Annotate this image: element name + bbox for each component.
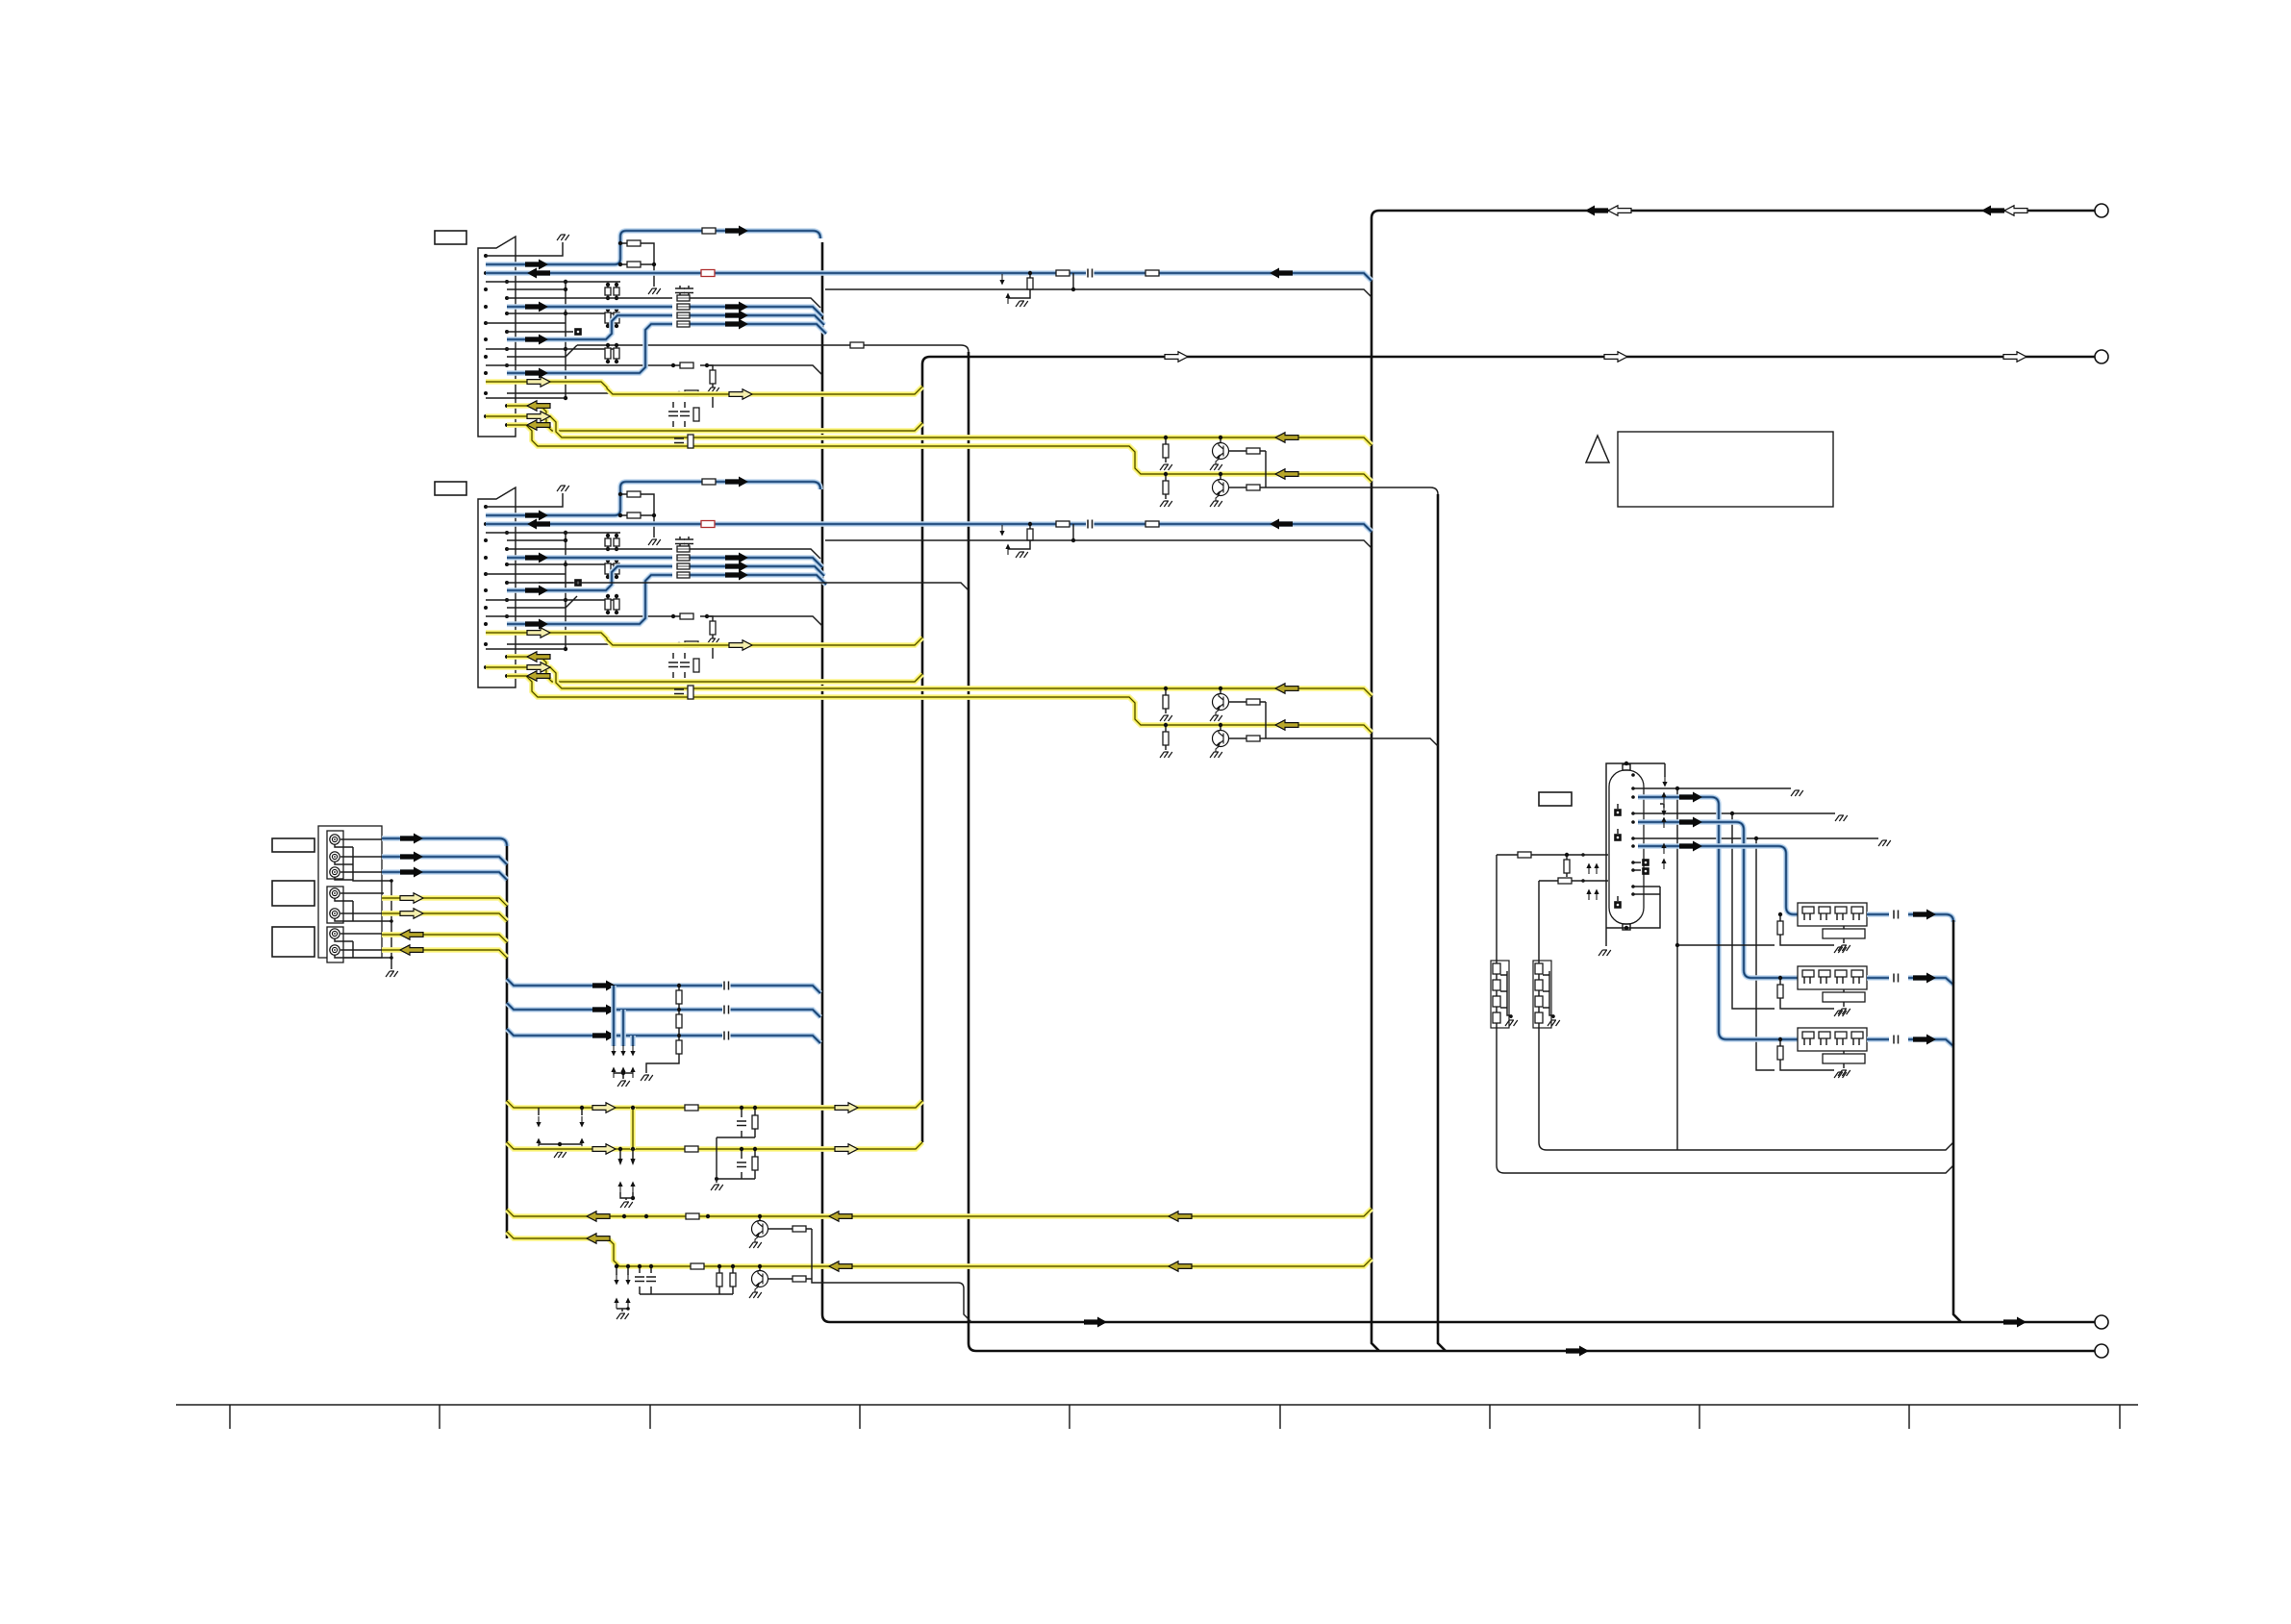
wire CN2 row310 to bus V2: [507, 549, 820, 559]
wire D-sub pin gnd row y=820: [1633, 787, 1791, 789]
cap and resistor pair under yellow sync2: [717, 1149, 755, 1179]
connector CN1 pin 16: [505, 380, 509, 384]
connector CN1 pin 17: [484, 391, 488, 395]
resistor inline on blue CN1: [702, 228, 716, 234]
terminator square on CN1 row 345: [574, 328, 582, 336]
resistor inline on CN2 row380: [680, 613, 693, 619]
arrow at CN2 pin2: [525, 511, 548, 521]
base resistor QE: [768, 1278, 812, 1280]
red inline resistor on blue input CN2: [701, 521, 715, 528]
wire yellow RCA-A1: [382, 935, 507, 942]
RCA jack A1: [330, 929, 340, 938]
ruler tick 7: [1489, 1405, 1491, 1429]
wire vertical bus V4 x=1426 with top run y=219 to terminal: [1372, 211, 2095, 1351]
inline resistor 1 on blue input CN2: [1056, 521, 1070, 527]
wire blue TMDS2 CN1 step up: [507, 324, 826, 373]
wire vertical bus V1 x=527: [506, 846, 509, 1238]
arrow blue VGA green: [1679, 817, 1702, 828]
wire yellow CEC-B CN1 long stepped to V4: [507, 425, 1372, 482]
esd up arrows left of D-sub: [1588, 867, 1590, 874]
wire yellow sync 2 y=1195: [507, 1142, 922, 1149]
resistor to ground tap on blue input CN1: [1027, 278, 1033, 289]
connector CN1 pin 7: [484, 305, 488, 309]
transistor QA CN2: [1220, 688, 1221, 694]
arrow blue VGA blue: [1679, 841, 1702, 852]
up-arrow stubs under sync2: [619, 1186, 621, 1192]
base resistor QD: [768, 1228, 812, 1230]
resistor stub on yellow B CN1: [1165, 474, 1167, 499]
arrow filter3 output: [1913, 1035, 1936, 1045]
branch resistors at CN2 riser x=645: [620, 494, 654, 537]
wire yellow DDC-A CN2 ends at V959: [486, 633, 922, 645]
connector CN1 pin 14: [505, 363, 509, 367]
connector CN2 pin 1: [484, 505, 488, 509]
wire D-sub left H/V sync row y=889: [1497, 854, 1608, 856]
wire yellow CEC-B CN2 long stepped to V4: [507, 676, 1372, 733]
connector CN2 pin 2: [505, 513, 509, 517]
arrow on line y=371 left: [1604, 352, 1627, 362]
filter FL3 shield bar: [1823, 1054, 1865, 1063]
terminal circle y=371: [2095, 350, 2108, 363]
wire blue TMDS0 CN1: [507, 307, 822, 316]
wire blue long input CN2 y=545 to bus V4: [486, 524, 1372, 532]
ground for resistor ladder: [641, 1075, 653, 1081]
resistor to ground on CN1 row380: [710, 370, 716, 384]
ruler tick 6: [1279, 1405, 1281, 1429]
resistor stub on yellow A CN1: [1165, 437, 1167, 462]
resistor to ground tap on blue input CN2: [1027, 529, 1033, 540]
capacitor cluster CN1: [673, 402, 685, 427]
arrows yellow sync 1: [592, 1103, 616, 1112]
resistor pair CN2-1: [605, 538, 611, 546]
wire yellow bottom B stepped y=1288/1317: [507, 1232, 1372, 1266]
arrow blue component 2: [592, 1005, 616, 1015]
arrow yellow RCA-A1: [400, 930, 423, 939]
wire blue filter2 output: [1867, 978, 1953, 985]
wire vertical from row2 x=1600 down through filter: [1539, 881, 1953, 1150]
arrow on blue CN1 clock: [725, 226, 748, 237]
return vertical from row820: [1676, 788, 1678, 1150]
terminal circle top-right y=219: [2095, 204, 2108, 217]
caps and resistors under yellow bottom B: [640, 1266, 733, 1294]
wire CN1 row409 with resistor: [507, 393, 713, 408]
wire yellow sync 1 y=1152: [507, 1101, 922, 1108]
note box: [1618, 432, 1833, 507]
connector CN1 pin 3: [484, 271, 488, 275]
wire vertical bus V959 sync collector with top run y=371: [922, 357, 2095, 1142]
arrow filter2 output: [1913, 973, 1936, 984]
wire black return CN2 y=562 to bus V4: [825, 540, 1372, 548]
wire blue filter1 output: [1867, 914, 1953, 922]
wire blue TMDS clock CN2 to bus V2: [486, 482, 820, 515]
wire CN2 row380 to bus V2: [486, 616, 822, 626]
connector CN1 pin 8: [505, 312, 509, 315]
arrow yellow DDC-B CN2: [527, 652, 550, 662]
wire blue TMDS2 CN2 step up: [507, 575, 826, 624]
blue stub drop 1: [611, 986, 617, 1046]
resistor stub on yellow B CN2: [1165, 725, 1167, 750]
filter FL3 body: [1798, 1028, 1867, 1051]
arrow left on blue input CN1: [1270, 268, 1293, 279]
filter FL1 input resistor to ground: [1780, 914, 1834, 945]
wire blue TMDS1 CN1 step up: [507, 315, 824, 339]
connector CN1 pin 10: [505, 330, 509, 334]
wire CN1 row310 to bus V2: [507, 298, 820, 308]
connector CN1 pin 6: [505, 296, 509, 300]
resistor to ground on CN2 row380: [710, 621, 716, 635]
bead on CN1 row310: [677, 295, 690, 301]
D-sub outer frame: [1606, 763, 1665, 946]
connector CN1 pin 5: [484, 287, 488, 291]
wire blue VGA green y=855: [1638, 822, 1798, 978]
vertical filter FL-B outer: [1533, 961, 1551, 1028]
arrow blue component 1: [592, 981, 616, 991]
arrows yellow bottom A: [587, 1212, 610, 1221]
arrow filter1 output: [1913, 910, 1936, 920]
base bus vertical CN2: [1265, 702, 1267, 738]
transistor QD on yellow bottom A: [759, 1216, 761, 1221]
arrow on bottom line y=1375 left: [1084, 1317, 1107, 1328]
arrow on line y=371 middle: [1165, 352, 1188, 362]
wire vertical bus V3 x=1007 with bottom run y=1405: [969, 352, 2095, 1351]
base resistor QA CN2: [1228, 701, 1266, 703]
arrow left on blue input CN2: [1270, 519, 1293, 530]
bracket and ground for blue stubs: [614, 1073, 633, 1079]
RCA shield wiring group1: [335, 844, 391, 881]
return vertical from row872: [1756, 838, 1775, 1070]
arrow yellow CEC-B CN2: [527, 671, 550, 681]
arrow TMDS1 CN1: [725, 311, 748, 321]
resistor pair CN1-2: [605, 312, 611, 323]
arrow at CN2 pin3: [527, 519, 550, 530]
resistor ladder for component blues: [676, 990, 682, 1004]
yellow bridge between sync lines: [630, 1108, 636, 1149]
wire blue RCA-Pb: [382, 857, 507, 864]
arrows yellow bottom B: [587, 1234, 610, 1243]
ground at CN1 pin1: [557, 235, 569, 240]
vertical filter FL-B side rail: [1543, 971, 1553, 1018]
arrow at CN1 pin2: [525, 260, 548, 270]
connector CN1 pin 9: [484, 321, 488, 325]
ruler tick 5: [1069, 1405, 1070, 1429]
RCA label box 1: [272, 838, 315, 852]
arrow blue RCA-Pr: [400, 867, 423, 878]
resistor on y=359 feeder: [850, 342, 864, 348]
wire CN1 pin stubs: [486, 282, 620, 398]
wire blue component 3 y=1077: [507, 1029, 820, 1043]
RCA jack Pb: [330, 852, 340, 862]
arrow on bottom line y=1405: [1566, 1346, 1589, 1357]
hanging resistor on sync row: [1564, 860, 1570, 873]
inline resistor yellow bottom A: [686, 1213, 699, 1219]
stub arrows under yellow bottom B: [616, 1274, 617, 1281]
RCA ground stem: [390, 881, 392, 969]
ground for blue input tap CN1: [1016, 301, 1028, 307]
base resistor QB CN2: [1228, 737, 1266, 739]
connector CN2 pin 8: [505, 562, 509, 566]
wire blue TMDS clock CN1 to bus V2: [486, 231, 820, 264]
connector CN1 pin 15: [484, 371, 488, 375]
ruler tick 1: [229, 1405, 231, 1429]
arrow TMDS1 CN2: [725, 562, 748, 572]
RCA jack V1: [330, 888, 340, 898]
RCA jack A2: [330, 945, 340, 955]
wire vertical bus V2 x=855 with bottom run to terminal: [822, 242, 2095, 1322]
RCA group 1 sub-box: [327, 831, 343, 879]
wire yellow DDC-B CN1 ends at V959: [507, 406, 922, 431]
ruler tick 10: [2119, 1405, 2121, 1429]
wire blue long input CN1 y=284 to bus V4: [486, 273, 1372, 281]
wire CN2 row371 riser: [507, 596, 577, 608]
arrow TMDS2 CN1: [725, 319, 748, 330]
arrow yellow RCA-A2: [400, 945, 423, 955]
branch resistors at CN1 riser x=645: [620, 243, 654, 287]
vertical filter FL-B elements: [1535, 963, 1543, 974]
capacitor cluster CN2: [673, 653, 685, 678]
small esd squares on D-sub rows 897/905: [1633, 862, 1641, 870]
cap and resistor pair under yellow sync1: [717, 1108, 755, 1177]
wire CN2 pin1 to ground: [486, 493, 563, 507]
wire blue VGA blue y=880: [1638, 846, 1798, 914]
transistor QA CN1: [1220, 437, 1221, 443]
connector CN1 pin 2: [505, 262, 509, 266]
resistor stub on yellow A CN2: [1165, 688, 1167, 713]
inline capacitor blue component 2: [722, 1005, 731, 1014]
arrow yellow DDC-B CN1: [527, 401, 550, 411]
connector CN2 pin 3: [484, 522, 488, 526]
terminal circle bottom y=1405: [2095, 1344, 2108, 1358]
wire yellow DDC-B CN2 ends at V959: [507, 657, 922, 682]
arrow TMDS2 CN2: [725, 570, 748, 581]
wire D-sub pin gnd row y=872: [1633, 837, 1878, 839]
connector CN2 pin 7: [484, 556, 488, 560]
connector CN2 pin 19: [484, 665, 488, 669]
arrow on line y=371 right: [2003, 352, 2027, 362]
blue stub drop 2: [620, 1010, 626, 1046]
connector CN1 label box: [435, 231, 466, 244]
connector CN1 pin 13: [484, 355, 488, 359]
wire CN1 row371 riser: [507, 345, 577, 357]
red inline resistor on blue input CN1: [701, 270, 715, 277]
RCA ground: [386, 971, 398, 977]
wire CN2 junction column x=588: [565, 533, 566, 649]
ground rail from filter1 to return vertical: [1677, 944, 1775, 946]
wire yellow CEC-A CN2 long to V4: [486, 667, 1372, 696]
down arrow on D-sub frame right: [1664, 763, 1666, 777]
capacitor pair CN1: [680, 286, 689, 297]
D-sub label box: [1539, 792, 1572, 806]
wire bus feeder from HDMI1 row y=359 turning down at x=1007: [577, 345, 969, 352]
connector CN2 pin 14: [505, 614, 509, 618]
arrow blue RCA-Y: [400, 834, 423, 844]
inline capacitor blue component 3: [722, 1031, 731, 1040]
filter FL1 shield bar: [1823, 929, 1865, 938]
elbow down-arrow between rows: [1660, 804, 1664, 808]
wire blue component 2 y=1050: [507, 1003, 820, 1017]
wire vertical output bus x=2031: [1953, 920, 1961, 1322]
wire D-sub rows to frame: [1633, 887, 1660, 894]
connector CN1 pin 12: [505, 347, 509, 351]
RCA jack Pr: [330, 867, 340, 877]
ground for blue input tap CN2: [1016, 552, 1028, 558]
wire vertical bus V5 x=1495 base-signal bus: [1438, 494, 1446, 1351]
RCA jack Y: [330, 835, 340, 844]
arrow pair on top line y=219 right group: [1981, 206, 2004, 216]
shell pin squares inside D-sub: [1617, 804, 1619, 901]
ground under yellow bottom B: [617, 1313, 629, 1319]
connector CN2 pin 13: [484, 606, 488, 610]
inline resistor yellow bottom B: [691, 1263, 704, 1269]
terminal circle bottom y=1375: [2095, 1315, 2108, 1329]
RCA shield wiring group2: [335, 898, 391, 921]
D-sub pill body: [1609, 770, 1644, 924]
arrow blue component 3: [592, 1031, 616, 1041]
arrow yellow RCA-V1: [400, 893, 423, 903]
connector CN2 pin 4: [505, 531, 509, 535]
wire base line CN2 to V5: [1266, 738, 1438, 746]
arrow blue VGA red: [1679, 792, 1702, 803]
RCA label box 3: [272, 927, 315, 957]
wire yellow RCA-V2: [382, 913, 507, 921]
connector CN2 label box: [435, 482, 466, 495]
resistor pair CN2-2: [605, 563, 611, 574]
RCA shield wiring group3: [335, 938, 391, 958]
connector CN1 pin 19: [484, 414, 488, 418]
ground under yellow sync1: [554, 1152, 566, 1158]
wire yellow CEC-A CN1 long to V4: [486, 416, 1372, 445]
transistor QE on yellow bottom B: [759, 1266, 761, 1271]
resistor inline on blue CN2: [702, 479, 716, 485]
wire blue VGA red y=829: [1638, 797, 1798, 1039]
ground below CN1 riser branch: [648, 288, 661, 294]
connector CN1 pin 1: [484, 254, 488, 258]
filter FL2 elements: [1802, 970, 1814, 977]
wire blue filter3 output: [1867, 1039, 1953, 1046]
arrow at CN1 pin3: [527, 268, 550, 279]
connector CN2 pin 12: [505, 598, 509, 602]
arrow yellow DDC-A CN1: [527, 377, 550, 387]
base network vertical and run to bottom bus: [812, 1229, 971, 1322]
arrow blue RCA-Pb: [400, 852, 423, 862]
arrow TMDS0 CN2: [725, 553, 748, 563]
connector CN2 body outline: [478, 487, 516, 687]
connector CN1 pin 11: [484, 337, 488, 341]
vertical filter FL-B ground: [1548, 1020, 1560, 1026]
resistor inline on CN1 row380: [680, 362, 693, 368]
ruler baseline: [176, 1404, 2138, 1406]
RCA jack V2: [330, 909, 340, 918]
arrow yellow DDC-A CN2: [527, 628, 550, 637]
up-arrow symbols at D-sub column: [1663, 796, 1665, 803]
inline resistor yellow sync2: [685, 1146, 698, 1152]
inline capacitor on blue input CN1: [1086, 268, 1095, 278]
vertical filter FL-A outer: [1491, 961, 1509, 1028]
inline resistor 2 on blue input CN2: [1145, 521, 1159, 527]
vertical filter FL-A ground: [1505, 1020, 1518, 1026]
filter FL2 shield bar: [1823, 992, 1865, 1002]
wire black return CN1 y=301 to bus V4: [825, 289, 1372, 297]
filter FL3 input resistor to ground: [1780, 1039, 1834, 1070]
resistor pair CN1-1: [605, 287, 611, 295]
ruler tick 9: [1908, 1405, 1910, 1429]
base resistor QB CN1: [1228, 487, 1266, 488]
base bus vertical CN1: [1265, 451, 1267, 487]
connector CN2 pin 18: [505, 655, 509, 659]
connector CN1 pin 4: [505, 280, 509, 284]
wire blue RCA-Pr: [382, 872, 507, 880]
wire vertical from sync row x=1556 down through filter: [1497, 855, 1953, 1173]
down-arrow stubs under sync2: [620, 1149, 633, 1160]
wire CN2 pin stubs: [486, 533, 620, 649]
filter FL2 input resistor to ground: [1780, 978, 1834, 1009]
connector CN2 pin 20: [505, 674, 509, 678]
return vertical from row846: [1732, 813, 1775, 1009]
RCA connector outer box: [318, 826, 382, 958]
wire yellow DDC-A CN1 ends at V959: [486, 382, 922, 394]
arrow yellow CEC-A CN2: [527, 662, 550, 672]
wire CN1 junction column x=588: [565, 282, 566, 398]
wire blue TMDS0 CN2: [507, 558, 822, 567]
arrow on blue CN2 clock: [725, 477, 748, 487]
vertical filter FL-A elements: [1493, 963, 1500, 974]
connector CN2 pin 17: [484, 642, 488, 646]
wire blue component 1 y=1025: [507, 979, 820, 993]
connector CN2 pin 9: [484, 572, 488, 576]
terminator square on CN2 row 345: [574, 579, 582, 587]
connector CN1 pin 20: [505, 423, 509, 427]
vertical filter FL-A side rail: [1500, 971, 1511, 1018]
base resistor QA CN1: [1228, 450, 1266, 452]
wire CN2 row409 with resistor: [507, 644, 713, 659]
arrow on bottom line y=1375 right: [2003, 1317, 2027, 1328]
ruler tick 8: [1699, 1405, 1700, 1429]
inline resistor 2 on blue input CN1: [1145, 270, 1159, 276]
wire CN2 long row to V3: [539, 583, 969, 590]
filter FL3 elements: [1802, 1032, 1814, 1038]
inline capacitor blue component 1: [722, 981, 731, 990]
RCA label box 2: [272, 881, 315, 906]
ruler tick 4: [859, 1405, 861, 1429]
filter FL1 elements: [1802, 907, 1814, 913]
arrows yellow sync 2: [592, 1144, 616, 1154]
RCA group 3 sub-box: [327, 927, 343, 962]
transistor QB CN1: [1220, 474, 1221, 480]
wire yellow RCA-A2: [382, 950, 507, 958]
RCA pin wires: [340, 839, 384, 950]
resistor pair CN2-3: [605, 599, 611, 610]
ground for sync cap network: [716, 1179, 718, 1183]
blue stub drop 3: [630, 1036, 636, 1046]
connector CN2 pin 5: [484, 538, 488, 542]
wire yellow RCA-V1: [382, 898, 507, 906]
inline resistor 1 on blue input CN1: [1056, 270, 1070, 276]
wire CN1 pin1 to ground: [486, 242, 563, 256]
down arrow tap on blue input CN1: [1001, 274, 1003, 281]
bead on CN2 row310: [677, 546, 690, 552]
inline resistor yellow sync1: [685, 1105, 698, 1111]
filter FL1 body: [1798, 903, 1867, 926]
wire D-sub pin gnd row y=846: [1633, 812, 1835, 814]
connector CN2 pin 15: [484, 622, 488, 626]
arrow yellow CEC-A CN1: [527, 412, 550, 421]
warning triangle: [1586, 436, 1609, 462]
arrow TMDS0 CN1: [725, 302, 748, 312]
ground under sync2 stubs: [625, 1198, 627, 1200]
ground below CN2 riser branch: [648, 539, 661, 545]
ruler tick 3: [649, 1405, 651, 1429]
connector CN2 pin 11: [484, 588, 488, 592]
transistor QB CN2: [1220, 725, 1221, 731]
